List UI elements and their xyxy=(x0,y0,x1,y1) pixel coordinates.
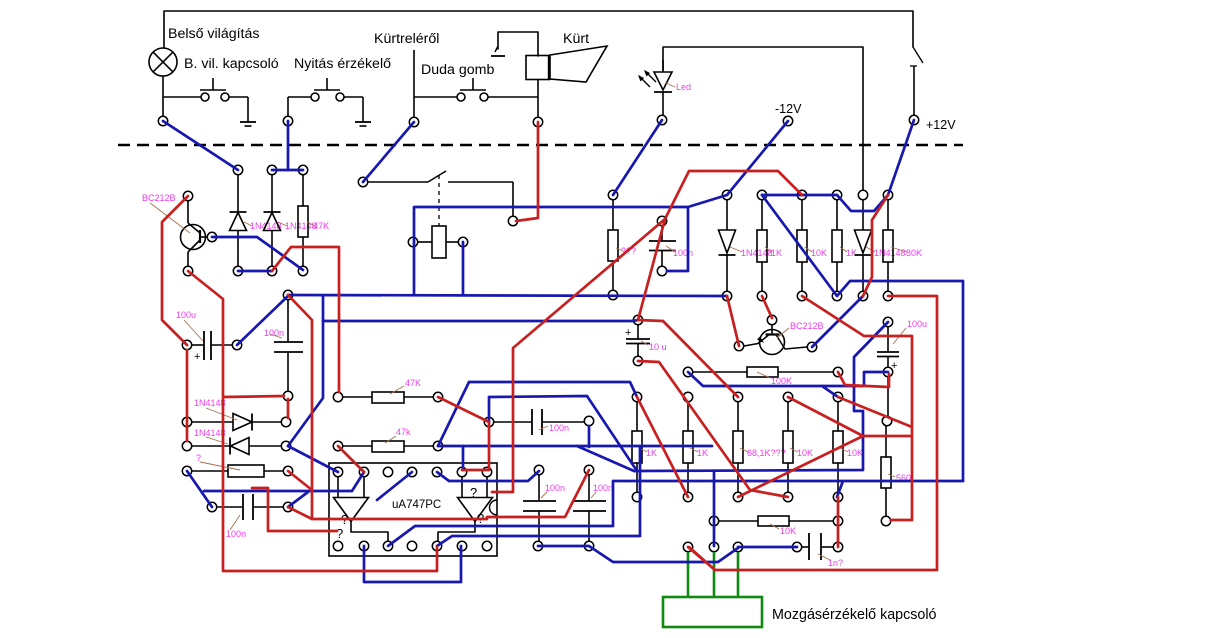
wire red 47k to ic xyxy=(338,446,364,472)
op-amp U1A xyxy=(334,477,369,522)
wire blue Q1 base xyxy=(212,237,303,270)
wire blue +12V xyxy=(888,120,914,195)
node Q2 top pad xyxy=(767,315,776,324)
wire horn top xyxy=(498,32,538,56)
label Kurtrelerol xyxy=(374,31,439,47)
wire blue 10k col xyxy=(713,471,716,546)
node C6 bottom pad xyxy=(584,541,593,550)
label Belso vilagitas xyxy=(168,26,259,42)
resistor 1K x837 xyxy=(832,200,842,291)
node D4 right pad xyxy=(281,441,290,450)
wire blue dip branch xyxy=(577,446,634,471)
resistor R2 ??? xyxy=(608,200,618,290)
wire blue LED to R2 xyxy=(613,120,662,195)
node Kurtrele pad xyxy=(409,117,418,126)
wire blue c100u top xyxy=(634,322,888,471)
label 1K x688 xyxy=(690,448,708,458)
label 100K xyxy=(757,372,792,386)
wire blue right rail xyxy=(837,281,963,481)
capacitor C7 1n xyxy=(797,533,833,560)
node relay coil right pad xyxy=(458,237,467,246)
node gbox pad2 xyxy=(709,542,718,551)
wire blue row1 tops xyxy=(762,195,888,211)
diode D1 1N4148 xyxy=(230,175,247,266)
svg-text:Duda gomb: Duda gomb xyxy=(421,62,494,78)
resistor 1K x688 xyxy=(683,402,693,492)
node R1 bottom pad xyxy=(298,266,307,275)
node C5 top pad xyxy=(534,465,543,474)
node gbox pad1 xyxy=(683,542,692,551)
label 47K horiz xyxy=(390,378,421,394)
wire red diag pads2 xyxy=(762,296,772,318)
svg-text:1n?: 1n? xyxy=(828,558,843,568)
node row1 top pad x888 xyxy=(883,190,892,199)
node row2 bottom pad x738 xyxy=(733,492,742,501)
node Q1 base pad xyxy=(207,232,216,241)
node C100uL left pad xyxy=(182,340,191,349)
svg-text:68,1K???: 68,1K??? xyxy=(747,448,786,458)
LED D-led xyxy=(654,60,672,115)
node C100uR bottom pad xyxy=(882,416,891,425)
svg-text:Kürt: Kürt xyxy=(563,31,589,47)
switch S1 B. vil. kapcsolo xyxy=(163,78,248,122)
wire blue c3 up xyxy=(288,492,308,507)
node R2 bottom pad xyxy=(608,290,617,299)
wire blue y397 xyxy=(489,396,637,471)
node C100uR mid pad xyxy=(883,367,892,376)
lamp L1 Belso vilagitas xyxy=(149,48,177,76)
wire red outer rail xyxy=(689,296,937,570)
pin U1 bottom 6 xyxy=(457,541,466,550)
node R100K left pad xyxy=(683,367,692,376)
node C1 bottom pad xyxy=(657,266,666,275)
svg-text:-12V: -12V xyxy=(775,102,802,116)
pin U1 bottom 5 xyxy=(432,541,441,550)
label C3 100n xyxy=(226,515,246,539)
node C7 mid pad xyxy=(792,542,801,551)
node C3 left pad xyxy=(207,502,216,511)
node R2 top pad xyxy=(608,190,617,199)
node row1 bottom pad x802 xyxy=(797,291,806,300)
wire blue c100u mid xyxy=(688,372,888,386)
node C1 top pad xyxy=(657,216,666,225)
wire blue 100u diag xyxy=(237,296,288,345)
node D4 left pad xyxy=(182,441,191,450)
svg-text:100n: 100n xyxy=(593,483,613,493)
diode D4 1N4148 xyxy=(192,438,281,455)
label Led xyxy=(666,82,691,92)
resistor R1 47K xyxy=(298,175,308,266)
node node-A pad xyxy=(283,290,292,299)
label Nyitas erzekelo xyxy=(294,56,391,72)
label R2 ??? xyxy=(616,246,636,256)
wire red diag 788 xyxy=(788,397,863,436)
label 560 xyxy=(888,473,911,483)
node Q2 left pad xyxy=(734,341,743,350)
wire top border xyxy=(164,11,913,48)
node +12V pad xyxy=(909,115,918,124)
wire green 3 xyxy=(737,552,740,597)
label ? u1a out xyxy=(336,526,343,541)
resistor 10K x788 xyxy=(783,402,793,492)
wire Kurtrele stem xyxy=(413,50,415,117)
node row1 top pad x762 xyxy=(757,190,766,199)
wire red diag pads1 xyxy=(727,296,739,346)
wire red qline xyxy=(487,470,589,517)
resistor R ? xyxy=(192,465,283,477)
svg-text:47K: 47K xyxy=(313,221,329,231)
wire red green diag xyxy=(688,547,715,570)
IC U1 uA747PC box xyxy=(329,463,497,556)
label 10K x788 xyxy=(790,448,813,458)
svg-text:10K: 10K xyxy=(780,526,796,536)
svg-text:Kürtreléről: Kürtreléről xyxy=(374,31,439,47)
wire red d2 to 47k xyxy=(272,247,339,392)
wire red 100u down xyxy=(186,350,189,441)
label 80K x888 xyxy=(891,247,922,258)
capacitor C4 100n xyxy=(494,409,584,435)
resistor 10K x802 xyxy=(797,200,807,291)
wire green 1 xyxy=(687,552,690,597)
svg-text:?: ? xyxy=(470,485,477,500)
wire red 10u top xyxy=(638,320,738,397)
label -12V xyxy=(775,102,802,116)
pin U1 top 5 xyxy=(432,467,441,476)
svg-text:Nyitás érzékelő: Nyitás érzékelő xyxy=(294,56,391,72)
svg-text:100u: 100u xyxy=(176,310,196,320)
wire blue u1 pin4 xyxy=(377,472,412,500)
wire blue D2-R1 top xyxy=(272,169,303,172)
switch S3 Duda gomb xyxy=(414,78,538,101)
node C100uL right pad xyxy=(232,340,241,349)
svg-text:1N4148: 1N4148 xyxy=(874,248,906,258)
resistor R 560 xyxy=(881,426,891,516)
node row2 top pad x838 xyxy=(833,392,842,401)
resistor 10K x838 xyxy=(833,402,843,492)
label 1K x762 xyxy=(765,247,782,258)
label 100u right xyxy=(893,319,927,344)
svg-text:47K: 47K xyxy=(405,378,421,388)
label C7 1n? xyxy=(818,554,843,568)
LED arrows xyxy=(638,70,656,87)
capacitor C5 100n xyxy=(523,475,556,541)
wire red 47K diag xyxy=(438,397,489,422)
op-amp U1B xyxy=(458,477,493,522)
ground S1 xyxy=(240,122,256,126)
svg-text:47k: 47k xyxy=(396,427,411,437)
node Q1 collector pad xyxy=(183,191,192,200)
wire lamp to node xyxy=(162,76,164,121)
node R560 bottom pad xyxy=(881,516,890,525)
label uA747PC xyxy=(392,499,441,511)
capacitor C2 100n vertical xyxy=(274,300,303,391)
label 1N4148 x863 xyxy=(866,247,906,258)
svg-text:B. vil. kapcsoló: B. vil. kapcsoló xyxy=(184,56,279,72)
resistor 80K x888 xyxy=(883,200,893,291)
node C7 right pad xyxy=(833,542,842,551)
node C4 left pad xyxy=(484,417,493,426)
wire blue c4r drop xyxy=(588,426,591,447)
svg-text:100n: 100n xyxy=(545,483,565,493)
pin U1 bottom 4 xyxy=(407,541,416,550)
diode 1N4148 x727 xyxy=(719,200,736,291)
svg-text:10 u: 10 u xyxy=(649,342,667,352)
node R10K left pad xyxy=(709,516,718,525)
node C10u bottom pad xyxy=(633,356,642,365)
wire red q1 top xyxy=(162,196,188,345)
label D3 1N4148 xyxy=(194,398,237,420)
svg-text:+12V: +12V xyxy=(926,118,956,132)
wire red r-row diag xyxy=(288,471,312,490)
wire relay switch xyxy=(368,171,513,216)
node C100uR top pad xyxy=(883,317,892,326)
diode 1N4148 x863 xyxy=(855,200,872,291)
transistor Q2 BC212B xyxy=(744,325,807,355)
label B. vil. kapcsolo xyxy=(184,56,279,72)
node row2 top pad x637 xyxy=(632,392,641,401)
label 1N4148 x727 xyxy=(730,247,773,258)
wire red nodeA down xyxy=(288,295,487,519)
resistor 68,1K??? x738 xyxy=(733,402,743,492)
wire blue diag 47k xyxy=(438,382,469,446)
node R1 top pad xyxy=(298,165,307,174)
wire red 10u branch xyxy=(638,219,665,320)
label C5 100n xyxy=(541,483,565,498)
pin U1 top 2 xyxy=(359,467,368,476)
node D3 right pad xyxy=(281,417,290,426)
label +12V xyxy=(926,118,956,132)
node lamp pad xyxy=(158,116,167,125)
node row2 top pad x688 xyxy=(683,392,692,401)
capacitor C 100u right xyxy=(877,327,899,416)
node D1 bottom pad xyxy=(233,266,242,275)
node R? right pad xyxy=(283,466,292,475)
svg-text:80K: 80K xyxy=(906,248,922,258)
node R? left pad xyxy=(182,466,191,475)
svg-text:1N4148: 1N4148 xyxy=(285,221,317,231)
node row2 top pad x738 xyxy=(733,392,742,401)
wire red long diag xyxy=(492,171,802,492)
node C5 bottom pad xyxy=(533,541,542,550)
label Q2 BC212B xyxy=(777,321,824,338)
node row1 bottom pad x888 xyxy=(883,291,892,300)
wire red 80k down xyxy=(863,195,888,296)
switch S4 +12V xyxy=(910,47,923,116)
wire blue left drop xyxy=(288,321,323,446)
label C6 100n xyxy=(591,483,613,498)
wire blue q2 diag xyxy=(812,296,863,347)
wire blue -12V xyxy=(727,121,788,195)
label ? u1a minus xyxy=(341,512,348,527)
pin U1 bottom 2 xyxy=(359,541,368,550)
wire blue 1n link xyxy=(738,546,797,549)
pin U1 bottom 7 xyxy=(482,541,491,550)
node horn pad xyxy=(533,117,542,126)
node R47K right pad xyxy=(433,392,442,401)
pin U1 top 4 xyxy=(407,467,416,476)
wire red diag 10u xyxy=(638,361,788,497)
horn LS1 xyxy=(526,46,607,82)
label ? u1b out xyxy=(477,511,484,526)
wire green 2 xyxy=(713,552,716,597)
transistor Q1 BC212B xyxy=(181,201,208,266)
label Kurt xyxy=(563,31,589,47)
pin U1 top 1 xyxy=(333,467,342,476)
node row2 bottom pad x788 xyxy=(783,492,792,501)
label 10u xyxy=(641,341,667,352)
svg-text:1K: 1K xyxy=(646,448,657,458)
svg-text:?: ? xyxy=(336,526,343,541)
wire red stub ic left xyxy=(252,488,337,531)
node Q2 right pad xyxy=(807,342,816,351)
pin U1 top 6 xyxy=(457,467,466,476)
node R10K right pad xyxy=(833,516,842,525)
motion sensor switch box xyxy=(663,597,762,627)
svg-text:+: + xyxy=(194,351,200,363)
svg-text:1N4148: 1N4148 xyxy=(194,398,226,408)
wire blue opamp in rail xyxy=(204,472,364,491)
label 68,1K??? x738 xyxy=(740,448,786,458)
label BC212B xyxy=(142,193,190,233)
node row1 bottom pad x762 xyxy=(757,291,766,300)
label Duda gomb xyxy=(421,62,494,78)
wire red c2 down xyxy=(287,399,290,418)
wire blue bottom rail xyxy=(288,295,727,296)
svg-text:1N4148: 1N4148 xyxy=(194,428,226,438)
wire red branch 436 xyxy=(738,436,912,497)
node R100K right pad xyxy=(833,367,842,376)
node row1 bottom pad x727 xyxy=(722,291,731,300)
capacitor C 100u left xyxy=(192,331,232,363)
wire red diag 1k xyxy=(637,397,688,497)
node R560 top pad junction xyxy=(882,416,891,425)
wire blue nyitas down xyxy=(287,121,290,170)
label C2 100n xyxy=(264,328,284,338)
IC notch arc xyxy=(490,500,497,515)
node row1 bottom pad x837 xyxy=(832,291,841,300)
wire blue u1a out xyxy=(388,481,963,546)
node row1 top pad x837 xyxy=(832,190,841,199)
wire blue relay right xyxy=(462,242,465,295)
pin U1 bottom 1 xyxy=(333,541,342,550)
resistor R 47K horiz xyxy=(343,392,433,403)
label D4 1N4148 xyxy=(194,428,228,444)
wire red c100u loop xyxy=(838,372,889,387)
wire blue long mid xyxy=(438,445,712,448)
label C1 100n xyxy=(666,246,693,258)
dashed separator line xyxy=(118,144,963,146)
wire blue node-A stub xyxy=(322,296,325,321)
node C2 bottom pad xyxy=(283,391,292,400)
label 100u left xyxy=(176,310,203,341)
node C4 right pad xyxy=(584,416,593,425)
svg-text:100n: 100n xyxy=(264,328,284,338)
wire blue b23 branch xyxy=(822,386,838,397)
switch S2 Nyitas erzekelo xyxy=(288,78,363,122)
label 10K horiz xyxy=(770,524,796,536)
node Q1 emitter pad xyxy=(183,266,192,275)
wire blue d4 to ic xyxy=(288,446,338,472)
wire red inner rail xyxy=(802,296,912,520)
node C6 top pad xyxy=(584,465,593,474)
label 1K x637 xyxy=(639,448,657,458)
svg-text:+: + xyxy=(625,327,631,339)
svg-text:10K: 10K xyxy=(847,448,863,458)
svg-text:1K: 1K xyxy=(771,248,782,258)
wire red c2 link xyxy=(224,396,284,397)
wire blue mid rail xyxy=(323,320,638,321)
node R47k left pad xyxy=(333,441,342,450)
label Mozgaserzekelo kapcsolo xyxy=(772,607,937,623)
capacitor C1 100n xyxy=(649,226,676,266)
svg-text:Mozgásérzékelő kapcsoló: Mozgásérzékelő kapcsoló xyxy=(772,607,937,623)
svg-text:1K: 1K xyxy=(846,248,857,258)
node row2 bottom pad x688 xyxy=(683,492,692,501)
wire S2 stem xyxy=(287,97,289,116)
node row2 bottom pad x838 xyxy=(833,492,842,501)
svg-text:1K: 1K xyxy=(697,448,708,458)
svg-text:BC212B: BC212B xyxy=(790,321,824,331)
label D1 1N4148 xyxy=(244,221,282,231)
ground S2 xyxy=(355,122,371,126)
node C10u top pad xyxy=(633,315,642,324)
label C4 100n xyxy=(539,423,569,433)
wire inner top rail xyxy=(663,47,863,190)
wire red 1n col xyxy=(837,497,840,547)
diode D2 1N4148 xyxy=(264,175,281,266)
wire blue D1-D2 bottom xyxy=(238,270,272,273)
label R ? xyxy=(196,453,240,470)
resistor R 47k horiz xyxy=(343,441,433,452)
capacitor C6 100n xyxy=(573,475,606,541)
wire blue C1 branch xyxy=(667,207,688,271)
capacitor C 10u xyxy=(625,325,650,356)
svg-text:100n: 100n xyxy=(549,423,569,433)
label 47k horiz xyxy=(385,427,411,443)
wire blue lamp to D1 xyxy=(163,121,238,170)
ground horn xyxy=(491,46,505,56)
pin U1 top 3 xyxy=(383,467,392,476)
node D3 left pad xyxy=(182,417,191,426)
node row1 top pad x727 xyxy=(722,190,731,199)
label 1K x837 xyxy=(840,247,857,258)
wire blue under ic xyxy=(364,546,461,582)
svg-text:10K: 10K xyxy=(797,448,813,458)
wire blue cap link xyxy=(538,546,738,562)
resistor R 10K horiz xyxy=(719,516,833,526)
wire U1B output xyxy=(438,522,475,542)
node row1 top pad x802 xyxy=(797,190,806,199)
wire blue pin6 drop xyxy=(462,446,465,468)
svg-text:Belső világítás: Belső világítás xyxy=(168,26,259,42)
label 10K x838 xyxy=(840,448,863,458)
node D2 bottom pad xyxy=(267,266,276,275)
node R47K left pad xyxy=(333,392,342,401)
wire blue r-row diag xyxy=(187,471,212,507)
svg-text:100K: 100K xyxy=(771,376,792,386)
node C7 left pad xyxy=(733,542,742,551)
pin U1 bottom 3 xyxy=(383,541,392,550)
svg-text:100n: 100n xyxy=(673,248,693,258)
wire blue main rail xyxy=(414,195,727,295)
resistor 1K x762 xyxy=(757,200,767,291)
node row1 top pad x863 xyxy=(858,190,867,199)
svg-text:?: ? xyxy=(196,453,201,463)
wire blue out1 xyxy=(437,447,640,546)
node relay coil left pad xyxy=(408,237,417,246)
svg-text:Led: Led xyxy=(676,82,691,92)
node row2 bottom pad x637 xyxy=(632,492,641,501)
